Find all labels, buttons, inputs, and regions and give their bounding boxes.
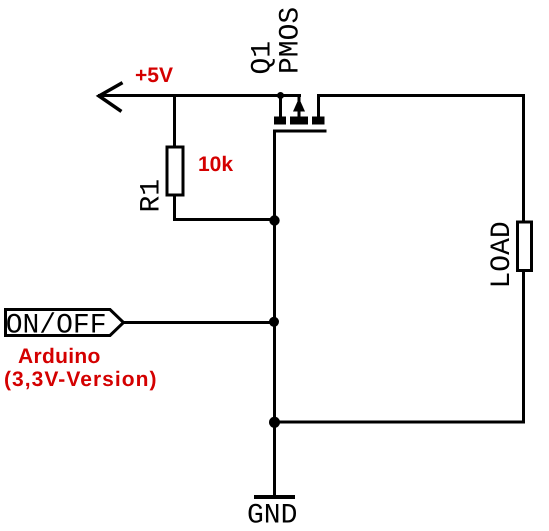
svg-text:Arduino: Arduino	[18, 345, 101, 368]
resistor R1 body	[167, 147, 183, 195]
wire R1 bottom	[173, 196, 176, 221]
wire +5V rail right to drain corner	[317, 94, 525, 97]
transistor Q1 source contact	[274, 116, 286, 124]
transistor Q1 gate bar	[273, 130, 326, 133]
svg-text:ON/OFF: ON/OFF	[6, 310, 107, 341]
svg-text:10k: 10k	[198, 153, 233, 176]
wire bottom rail	[273, 420, 525, 423]
wire right vertical top	[522, 94, 525, 222]
node junction J4 gnd-load	[269, 417, 280, 428]
transistor Q1 bulk arrow	[293, 98, 305, 112]
svg-text:(3,3V-Version): (3,3V-Version)	[4, 368, 158, 391]
transistor Q1 bulk contact	[290, 116, 308, 124]
supply arrow +5V symbol	[99, 84, 121, 111]
wire GND stem	[273, 421, 276, 496]
wire R1 to gate net	[173, 218, 276, 221]
svg-text:LOAD: LOAD	[487, 221, 518, 288]
wire right vertical bottom	[522, 271, 525, 423]
resistor LOAD body	[518, 222, 532, 270]
transistor Q1 drain contact	[312, 116, 324, 124]
wire gate vertical	[273, 131, 276, 497]
svg-text:PMOS: PMOS	[276, 7, 307, 74]
wire source stub	[279, 95, 282, 117]
svg-text:GND: GND	[247, 501, 297, 531]
ground bar	[254, 495, 295, 499]
node junction J1 source	[277, 92, 284, 99]
svg-text:R1: R1	[137, 179, 168, 213]
node junction J2 gate-R1	[269, 215, 279, 225]
svg-text:Q1: Q1	[248, 41, 279, 75]
wire drain stub	[317, 95, 320, 117]
wire bulk stub	[298, 95, 301, 101]
svg-text:+5V: +5V	[135, 64, 173, 87]
node junction J3 gate-ON/OFF	[269, 317, 279, 327]
ON/OFF flag symbol	[6, 310, 124, 336]
wire +5V rail left	[98, 94, 301, 97]
wire ON/OFF to gate net	[123, 321, 276, 324]
wire R1 top	[173, 94, 176, 147]
